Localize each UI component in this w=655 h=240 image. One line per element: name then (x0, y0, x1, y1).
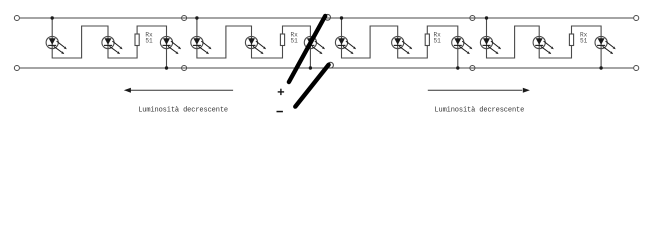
resistor R1 (body) (135, 34, 139, 46)
LED D5 (245, 36, 266, 54)
resistor R2 (body) (280, 34, 284, 46)
terminal: left end of bottom rail (open circle) (14, 65, 19, 70)
wire serpentine string of module 1: down leg / U-bottom / up leg / bridge (52, 18, 166, 68)
svg-text:51: 51 (145, 38, 153, 45)
junction dot on bottom rail (x=601.1) (599, 66, 602, 69)
LED D8 (392, 36, 413, 54)
connector ring on top rail where + probe touches (325, 14, 331, 20)
junction dot on top rail at node D (x=486.5) (485, 16, 488, 19)
LED D1 (46, 36, 67, 54)
connector node between modules 1-2 on top rail (182, 15, 187, 20)
connector ring on bottom rail where - probe touches (328, 62, 334, 68)
svg-text:Luminosità decrescente: Luminosità decrescente (138, 106, 228, 114)
svg-text:51: 51 (580, 38, 588, 45)
wire: bottom supply rail (20, 67, 634, 69)
LED D10 (480, 36, 501, 54)
LED D9 (452, 36, 473, 54)
svg-text:51: 51 (434, 38, 442, 45)
connector node between modules 3-4 on top rail (470, 15, 475, 20)
LED D4 (191, 36, 212, 54)
connector node between modules 3-4 on bottom rail (470, 65, 475, 70)
LED D7 (335, 36, 356, 54)
wire: top supply rail (20, 17, 634, 19)
LED D6 (304, 36, 325, 54)
svg-text:Luminosità decrescente: Luminosità decrescente (434, 106, 524, 114)
resistor R3 (body) (425, 34, 429, 46)
junction dot on top rail at node C (x=341.5) (340, 16, 343, 19)
terminal: right end of top rail (open circle) (634, 15, 639, 20)
junction dot on top rail at node B (x=196.9) (195, 16, 198, 19)
label: battery plus sign (278, 89, 284, 95)
LED D11 (533, 36, 554, 54)
LED D12 (595, 36, 616, 54)
junction dot on bottom rail (x=310.4) (309, 66, 312, 69)
junction dot on bottom rail (x=457.8) (456, 66, 459, 69)
annotation arrow pointing left (decreasing brightness, left half) (124, 88, 233, 93)
wire serpentine string of module 2: down leg / U-bottom / up leg / bridge (197, 18, 311, 68)
junction dot on top rail at node A (x=52.2) (51, 16, 54, 19)
terminal: right end of bottom rail (open circle) (634, 65, 639, 70)
resistor R4 (body) (569, 34, 573, 46)
LED D3 (160, 36, 181, 54)
label: battery minus sign (277, 111, 283, 113)
connector node between modules 1-2 on bottom rail (182, 65, 187, 70)
terminal: left end of top rail (open circle) (14, 15, 19, 20)
junction dot on bottom rail (x=166.5) (165, 66, 168, 69)
annotation arrow pointing right (decreasing brightness, right half) (428, 88, 530, 93)
wire serpentine string of module 3: down leg / U-bottom / up leg / bridge (342, 18, 458, 68)
svg-text:51: 51 (291, 38, 299, 45)
wire serpentine string of module 4: down leg / U-bottom / up leg / bridge (487, 18, 602, 68)
battery negative test probe touching bottom rail (295, 65, 328, 107)
LED D2 (102, 36, 123, 54)
battery positive test probe touching top rail (289, 16, 325, 82)
